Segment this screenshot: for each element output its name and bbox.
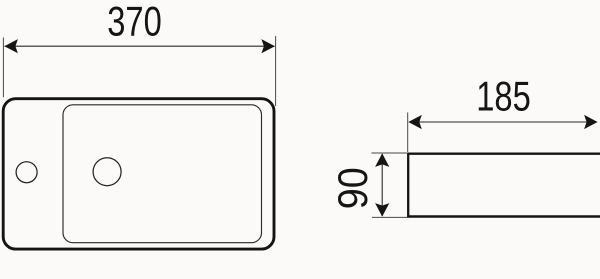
svg-text:185: 185 [476,73,531,120]
dimension line 370 [5,45,275,47]
side view slab: top edge [407,152,600,154]
tap hole circle [16,162,37,183]
arrow up (90) [375,153,389,167]
extension line left (370) [2,38,4,98]
side view slab: left edge [407,153,409,218]
extension line top (90) [372,152,409,154]
svg-text:90: 90 [329,167,376,209]
extension line left (185) [407,113,409,153]
extension line right (370) [275,36,277,106]
arrow left (185) [408,115,422,129]
dimension line 90 [381,154,383,216]
arrow right (370) [261,39,275,53]
arrow down (90) [375,203,389,217]
side view slab: bottom edge [407,215,600,217]
svg-text:370: 370 [107,0,162,44]
drain hole circle [93,158,121,186]
basin outer body (top view rounded rect) [3,99,274,249]
arrow left (370) [4,39,18,53]
extension line bottom (90) [372,216,408,218]
dimension line 185 [409,121,597,123]
basin inner bowl [63,105,262,243]
arrow right (185) [584,115,598,129]
